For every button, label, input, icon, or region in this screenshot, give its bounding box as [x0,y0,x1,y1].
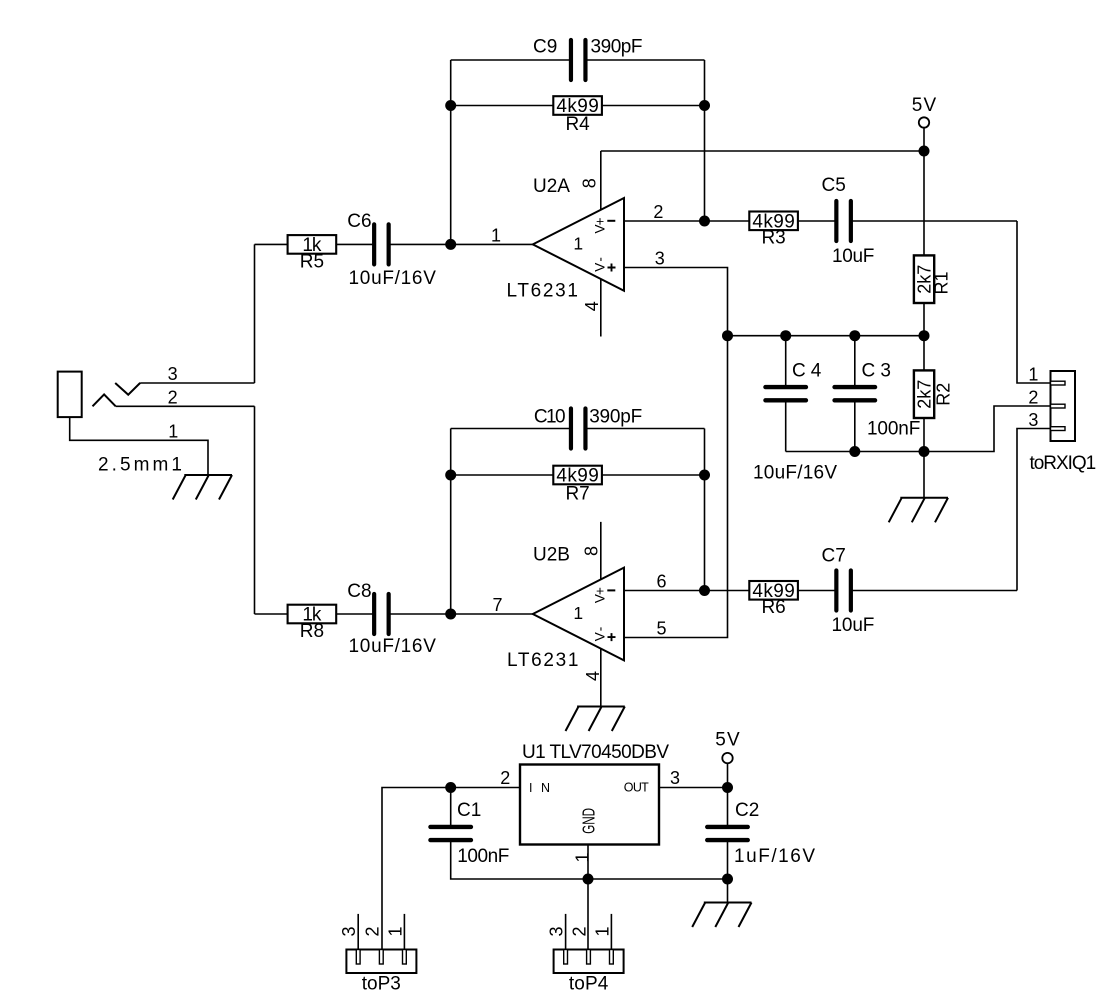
capacitor C5 [836,201,851,241]
node junction pin6/feedback [699,585,710,596]
regulator U1 TLV70450DBV body [520,765,659,845]
svg-text:2: 2 [570,926,590,936]
svg-text:C3: C3 [862,361,891,382]
svg-text:1: 1 [385,926,405,936]
node junction R7 right [699,470,710,481]
resistor R3 4k99 [749,212,798,231]
capacitor C10 [571,409,586,449]
svg-text:U2A: U2A [533,176,570,197]
svg-text:C10: C10 [534,406,566,427]
wire C3 bottom [854,400,856,452]
op-amp U2B inverting input dash [607,589,615,591]
node junction pin2/feedback [699,216,710,227]
svg-text:V-: V- [593,627,608,642]
svg-text:8: 8 [581,546,601,556]
wire bottom bias bus to toRXIQ1 pin2 [786,406,1051,452]
svg-text:1: 1 [592,926,612,936]
svg-text:2: 2 [653,202,663,222]
node junction R4-C9 left [445,100,456,111]
svg-text:OUT: OUT [624,781,649,795]
wire C1 top [450,788,452,826]
svg-text:GND: GND [579,808,599,834]
resistor R7 4k99 [553,466,602,485]
wire C8 to U2B [389,613,533,615]
svg-text:2k7: 2k7 [915,380,935,409]
connector toP3 pin 1 inner stub [403,950,407,965]
svg-text:R1: R1 [932,271,952,294]
resistor R2 2k7 [914,370,934,418]
wire toP3 pin 3 stub [357,914,359,950]
node junction C1 / IN [445,782,456,793]
svg-text:10uF: 10uF [832,246,874,267]
svg-text:V+: V+ [593,217,608,233]
svg-text:3: 3 [670,768,680,788]
svg-text:390pF: 390pF [591,37,643,58]
svg-text:2: 2 [1028,388,1038,408]
wire C2 top [727,788,729,826]
wire U1 pin1 GND down [587,845,589,880]
svg-text:R5: R5 [300,251,324,272]
connector toP3 pin 3 inner stub [356,950,360,965]
op-amp U2B non-inverting plus [608,633,616,641]
svg-text:4: 4 [583,671,603,681]
node junction bus C3 [849,330,860,341]
svg-text:R4: R4 [565,114,590,135]
node junction C6 output / feedback [445,239,456,250]
wire C10 row left [451,428,571,430]
connector toRXIQ1 pin 3 stub [1051,427,1066,431]
capacitor C8 [374,594,389,634]
connector 2.5mm1 tip contact pin 3 [115,383,140,395]
svg-text:V-: V- [593,257,608,272]
connector toP4 pin 3 inner stub [564,950,568,965]
wire 5V to rail [923,128,925,151]
svg-text:1: 1 [491,225,501,245]
svg-text:5V: 5V [715,730,740,751]
svg-text:390pF: 390pF [589,406,642,427]
svg-text:7: 7 [492,595,502,615]
svg-text:R8: R8 [300,621,324,642]
svg-text:2: 2 [168,387,178,407]
wire U2A pin8 to 5V rail [601,150,924,152]
connector toRXIQ1 pin 2 stub [1051,404,1066,408]
wire U2A power rail vertical pin 8 / pin 4 [600,151,602,337]
svg-text:C6: C6 [347,211,371,232]
wire right feedback vertical U2B [704,429,706,591]
svg-text:C9: C9 [533,37,557,58]
svg-text:1: 1 [1028,365,1038,385]
ground below C2 [692,903,751,928]
wire U2A pin3 to bus [624,268,728,336]
node junction bottom bus R2 [919,446,930,457]
svg-text:2: 2 [500,768,510,788]
svg-text:1: 1 [168,421,178,441]
svg-text:C4: C4 [792,361,822,382]
svg-text:R6: R6 [761,597,785,618]
node junction bus R1/R2 [919,330,930,341]
svg-text:toP3: toP3 [362,973,401,994]
resistor R6 4k99 [749,581,798,600]
wire C10 row right [585,428,704,430]
svg-text:R7: R7 [565,484,589,505]
wire U2B pin5 to bus riser [624,336,728,638]
wire toP3 pin 1 stub [403,914,405,950]
capacitor C1 [430,827,471,840]
wire U2B pin6 row to C7 [624,590,836,592]
wire C9 feedback top-left segment [451,59,571,61]
wire riser to toRXIQ1 pin3 [1017,429,1051,591]
svg-text:10uF: 10uF [832,615,875,636]
connector toP4 body [554,950,624,974]
svg-text:8: 8 [579,178,599,188]
power 5V top [919,117,929,127]
capacitor C7 [836,571,851,611]
svg-text:3: 3 [1028,410,1038,430]
wire riser to toRXIQ1 pin1 [1017,221,1051,383]
resistor R4 4k99 [553,96,602,115]
svg-text:4: 4 [582,301,602,311]
wire C4 bottom [785,400,787,452]
resistor R8 1k [288,605,337,624]
wire C2 ground stub [727,879,729,903]
wire jack pin2 [116,405,255,407]
wire toP4 pin 3 stub [565,914,567,950]
wire R7 row [451,474,705,476]
node junction gnd bus C2 [722,874,733,885]
svg-text:3: 3 [547,926,567,936]
wire C2 bottom [727,842,729,879]
svg-text:C8: C8 [347,581,371,602]
node junction bottom bus C3 [849,446,860,457]
connector toP4 pin 1 inner stub [610,950,614,965]
wire C5 to riser [851,220,1017,222]
connector 2.5mm1 ring contact pin 2 [93,394,116,406]
svg-text:2: 2 [362,926,382,936]
wire jack pin3 riser [254,244,256,383]
ground below jack [173,475,232,500]
wire toP3 pin2 riser to IN [382,788,520,950]
svg-text:LT6231: LT6231 [507,650,579,671]
svg-text:U1 TLV70450DBV: U1 TLV70450DBV [522,742,669,763]
node junction R4-C9 right [699,100,710,111]
wire R4 row [451,105,705,107]
connector toRXIQ1 body [1051,371,1076,441]
svg-text:U2B: U2B [533,545,570,566]
capacitor C6 [374,224,389,264]
wire C4 top [785,336,787,388]
svg-text:1: 1 [573,603,583,623]
svg-text:toP4: toP4 [569,973,609,994]
wire C1 bottom to gnd bus [451,842,728,879]
connector toP4 pin 2 inner stub [587,950,591,965]
ground below R2 [889,498,948,523]
svg-text:toRXIQ1: toRXIQ1 [1030,453,1097,474]
power 5V bottom [722,753,732,763]
op-amp U2A inverting input dash [607,220,615,222]
capacitor C4 [765,387,806,400]
resistor R5 1k [288,235,337,254]
svg-text:10uF/16V: 10uF/16V [349,636,437,657]
svg-text:C1: C1 [457,800,481,821]
svg-text:100nF: 100nF [457,846,509,867]
capacitor C2 [707,827,748,840]
wire C7 to riser [851,590,1017,592]
op-amp U2B LT6231 body [533,568,624,661]
node junction gnd bus pin1 [583,874,594,885]
svg-text:2.5mm1: 2.5mm1 [98,455,182,476]
node junction C8 output / feedback [445,609,456,620]
svg-text:100nF: 100nF [867,419,920,440]
connector toP3 pin 2 inner stub [379,950,383,965]
wire U2B power rail vertical pin 8 / pin 4 [600,522,602,707]
wire 5V rail down through R1 R2 [923,151,925,498]
wire input row to U2A [255,243,375,245]
connector toP3 body [346,950,416,974]
wire C3 top [854,336,856,388]
wire input row 2 to C8 [255,613,375,615]
wire toP4 pin 2 stub [587,879,589,950]
wire C9 feedback top-right segment [585,59,704,61]
svg-text:6: 6 [656,572,666,592]
svg-text:5V: 5V [912,95,937,116]
node junction OUT/C2/5V [722,782,733,793]
svg-text:C2: C2 [735,800,759,821]
wire jack pin2 riser down [254,406,256,614]
wire toP4 pin 1 stub [610,914,612,950]
wire U2A pin2 row to C5 [624,220,836,222]
svg-text:V+: V+ [593,587,608,603]
wire left feedback vertical U2B [450,429,452,615]
node junction bus left [722,330,733,341]
wire jack pin3 [140,382,254,384]
ground below U2B pin 4 [566,707,625,732]
svg-text:1uF/16V: 1uF/16V [734,846,815,867]
svg-text:R3: R3 [761,228,785,249]
wire 5V to OUT node [727,763,729,787]
svg-text:3: 3 [339,926,359,936]
node junction R7 left [445,470,456,481]
wire jack pin1 to ground [70,417,208,475]
svg-text:1: 1 [573,233,583,253]
node junction 5V rail / pin8 row [919,146,930,157]
wire mid bias bus [728,335,925,337]
resistor R1 2k7 [914,255,934,303]
svg-text:10uF/16V: 10uF/16V [753,463,837,484]
wire right feedback vertical U2A [704,60,706,221]
svg-text:R2: R2 [934,383,954,406]
op-amp U2A LT6231 body [533,198,624,291]
svg-text:C7: C7 [822,546,846,567]
capacitor C3 [835,387,876,400]
connector 2.5mm1 jack body [58,372,82,418]
node junction bus C4 [780,330,791,341]
wire OUT to 5V node [659,787,728,789]
svg-text:3: 3 [655,249,665,269]
wire left feedback vertical U2A [450,60,452,244]
wire C6 to U2A [389,243,533,245]
svg-text:C5: C5 [822,175,846,196]
svg-text:1: 1 [572,852,592,862]
connector toRXIQ1 pin 1 stub [1051,381,1066,385]
svg-text:LT6231: LT6231 [507,281,579,302]
op-amp U2A non-inverting plus [608,264,616,272]
svg-text:5: 5 [656,619,666,639]
svg-text:10uF/16V: 10uF/16V [349,268,437,289]
svg-text:3: 3 [168,364,178,384]
capacitor C9 [571,40,586,80]
